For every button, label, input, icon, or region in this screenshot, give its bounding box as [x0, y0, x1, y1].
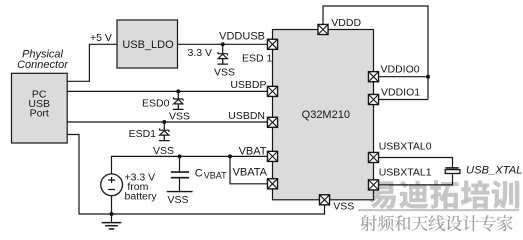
svg-text:USBXTAL1: USBXTAL1	[379, 167, 432, 179]
svg-text:VDDIO1: VDDIO1	[381, 87, 420, 99]
svg-text:Port: Port	[30, 108, 49, 120]
svg-text:USBXTAL0: USBXTAL0	[379, 141, 432, 153]
svg-text:USBDP: USBDP	[230, 79, 266, 91]
svg-text:+5 V: +5 V	[90, 32, 112, 44]
svg-text:VDDUSB: VDDUSB	[219, 30, 265, 42]
svg-text:Connector: Connector	[17, 59, 69, 71]
svg-text:C: C	[195, 167, 203, 179]
svg-text:USB_LDO: USB_LDO	[122, 39, 174, 51]
svg-text:ESD 1: ESD 1	[242, 52, 273, 64]
svg-text:VBATA: VBATA	[233, 167, 268, 179]
svg-text:battery: battery	[125, 191, 158, 203]
svg-text:USB_XTAL: USB_XTAL	[466, 165, 522, 177]
svg-text:ESD1: ESD1	[129, 128, 157, 140]
svg-text:Q32M210: Q32M210	[302, 109, 350, 121]
svg-text:ESD0: ESD0	[142, 97, 170, 109]
svg-text:VSS: VSS	[333, 201, 354, 213]
svg-text:VBAT: VBAT	[239, 145, 267, 157]
svg-text:VBAT: VBAT	[204, 170, 227, 180]
svg-text:VSS: VSS	[214, 67, 235, 79]
svg-text:VSS: VSS	[169, 111, 190, 123]
svg-text:VSS: VSS	[153, 145, 174, 157]
svg-text:VDDIO0: VDDIO0	[381, 64, 420, 76]
svg-text:USBDN: USBDN	[228, 110, 265, 122]
svg-text:VSS: VSS	[168, 194, 189, 206]
svg-text:VDDD: VDDD	[331, 17, 361, 29]
svg-text:3.3 V: 3.3 V	[188, 47, 213, 59]
